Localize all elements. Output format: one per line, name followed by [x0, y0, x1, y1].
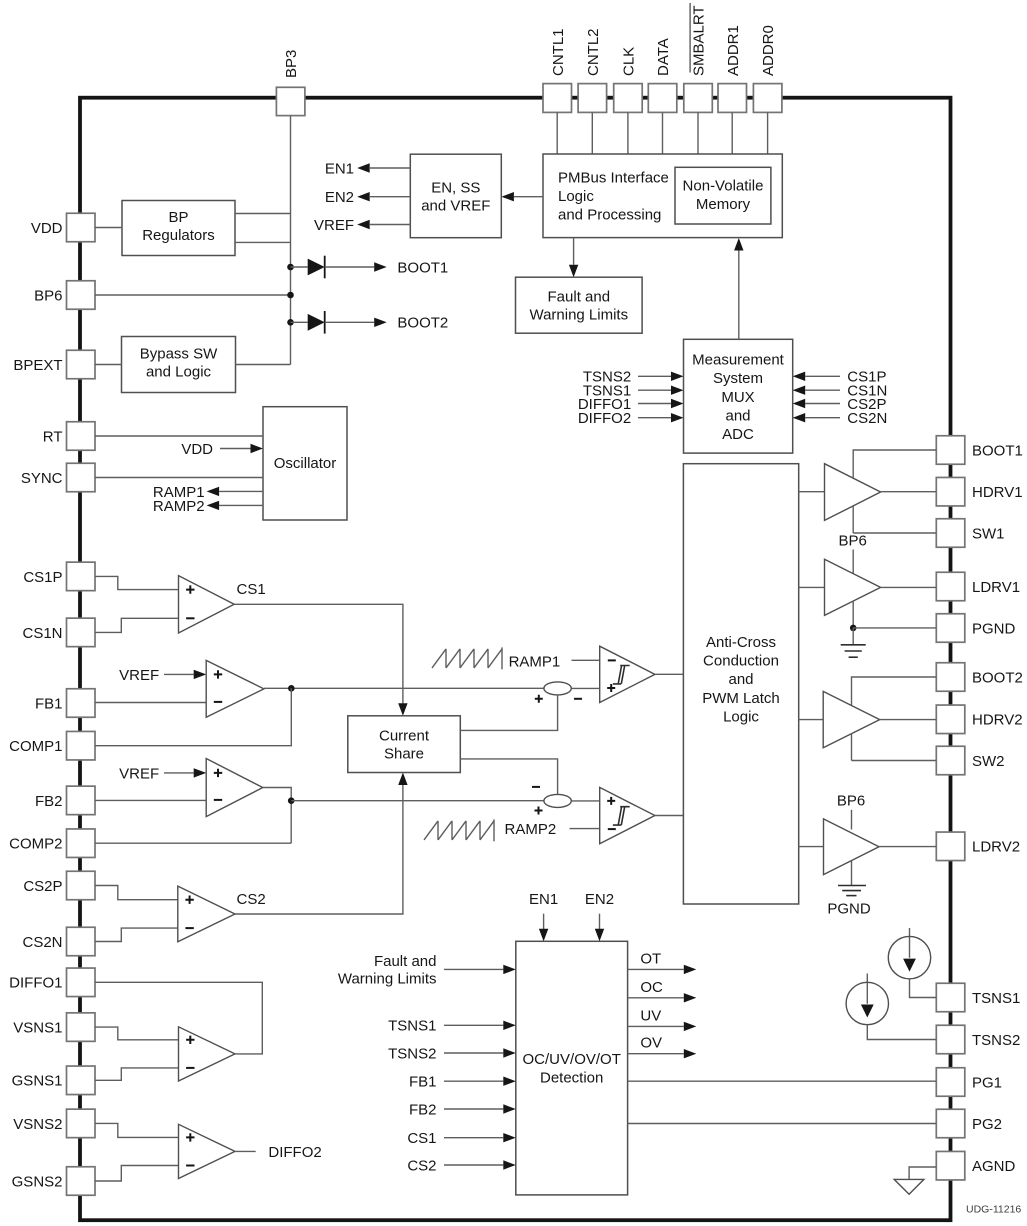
sawtooth symbol RAMP2: [424, 819, 556, 841]
svg-text:VREF: VREF: [119, 765, 159, 782]
wire BOOT1 to driver 1: [853, 450, 936, 478]
wire PGND: [853, 627, 936, 629]
svg-text:VDD: VDD: [181, 441, 213, 458]
svg-text:CNTL1: CNTL1: [550, 28, 567, 76]
ground symbol channel 1: [841, 628, 866, 657]
svg-text:PGND: PGND: [827, 900, 871, 917]
svg-text:TSNS1: TSNS1: [388, 1018, 436, 1035]
svg-text:CS2: CS2: [407, 1157, 436, 1174]
svg-text:Fault and: Fault and: [374, 953, 437, 970]
output OT from detection block: [628, 950, 697, 974]
pin BPEXT: [13, 350, 95, 379]
svg-text:Non-Volatile: Non-Volatile: [683, 178, 764, 195]
wire BP6 to driver 4: [851, 810, 853, 830]
svg-text:DATA: DATA: [655, 38, 672, 76]
ground symbol channel 2: [838, 886, 866, 896]
wire BPEXT to Bypass SW: [95, 364, 122, 366]
svg-text:EN2: EN2: [585, 891, 614, 908]
input CS1 to detection block: [407, 1130, 515, 1147]
wire diff amp 1 output to DIFFO1: [95, 982, 262, 1054]
pin SW2 (right): [936, 746, 1004, 775]
wire driver 3 to SW2 tap: [851, 734, 853, 761]
svg-text:CS2P: CS2P: [23, 878, 62, 895]
wire DATA to PMBus block: [662, 112, 664, 154]
svg-text:Conduction: Conduction: [703, 653, 779, 670]
op-amp diff amp 1: [179, 1027, 236, 1081]
svg-text:CLK: CLK: [621, 47, 638, 76]
svg-text:FB1: FB1: [35, 695, 63, 712]
op-amp error amplifier 1: [206, 660, 264, 717]
wire BP6 to driver 2: [852, 550, 854, 574]
svg-text:UDG-11216: UDG-11216: [966, 1203, 1021, 1215]
svg-text:BOOT2: BOOT2: [397, 315, 448, 332]
comparator PWM2 with hysteresis: [600, 787, 655, 843]
svg-text:Bypass SW: Bypass SW: [140, 346, 218, 363]
wire SMBALRT to PMBus block: [697, 112, 699, 154]
input EN1 arrow: [529, 891, 558, 941]
pin BP3: [276, 50, 305, 116]
chip boundary: [80, 98, 951, 1221]
pin COMP2: [9, 829, 95, 858]
wire error amp 1 output to summing node 1: [264, 687, 544, 689]
block BP Regulators: [122, 201, 235, 256]
sawtooth symbol RAMP1: [432, 647, 560, 670]
pin ADDR1: [718, 25, 747, 112]
pin BP6: [34, 281, 95, 310]
junction dot BP6: [287, 292, 294, 299]
input CS2 to detection block: [407, 1157, 515, 1174]
svg-text:and Processing: and Processing: [558, 206, 661, 223]
pin VSNS2: [13, 1109, 95, 1138]
pin PG2 (right): [936, 1109, 1002, 1138]
arrow PMBus to Fault and Warning Limits: [569, 238, 578, 277]
svg-text:RAMP2: RAMP2: [505, 821, 557, 838]
block Fault and Warning Limits: [516, 277, 643, 333]
input DIFFO1 to Measurement: [578, 396, 684, 413]
wire driver 1 to SW1 tap: [852, 506, 854, 533]
junction dot PGND channel 1: [850, 625, 857, 632]
svg-text:BP6: BP6: [839, 533, 867, 550]
svg-text:Logic: Logic: [558, 188, 594, 205]
pin COMP1: [9, 731, 95, 760]
svg-text:ADDR1: ADDR1: [725, 25, 742, 76]
wire CS2P to CS2 amp: [95, 886, 178, 900]
pin GSNS2: [12, 1167, 95, 1196]
arrow PMBus to EN SS block: [501, 192, 543, 201]
svg-text:Oscillator: Oscillator: [274, 455, 337, 472]
pin BOOT1 (right): [936, 436, 1023, 465]
svg-text:System: System: [713, 370, 763, 387]
wire RAMP2 to PWM comparator 2: [570, 828, 600, 830]
svg-text:GSNS1: GSNS1: [12, 1073, 63, 1090]
ground AGND: [894, 1167, 936, 1194]
svg-text:FB2: FB2: [409, 1101, 437, 1118]
wire Anti-Cross to driver 2: [799, 586, 825, 588]
pin CNTL2: [578, 28, 607, 112]
svg-text:RAMP1: RAMP1: [509, 653, 561, 670]
svg-text:COMP2: COMP2: [9, 836, 62, 853]
driver buffer 1 (HDRV1): [825, 464, 881, 521]
svg-text:CS1P: CS1P: [23, 569, 62, 586]
svg-text:PWM Latch: PWM Latch: [702, 690, 780, 707]
wire PWM1 to Anti-Cross block: [655, 673, 684, 675]
input CS2N to Measurement (right): [793, 410, 888, 427]
svg-text:BP6: BP6: [34, 287, 62, 304]
comparator PWM1 with hysteresis: [600, 646, 655, 702]
wire BP6 to net: [95, 294, 291, 296]
input CS2P to Measurement (right): [793, 396, 887, 413]
block PMBus Interface Logic and Processing: [543, 154, 782, 238]
block Non-Volatile Memory: [675, 167, 771, 224]
junction dot diode2: [287, 319, 294, 326]
svg-text:and VREF: and VREF: [421, 198, 490, 215]
wire CS1N to CS1 amp: [95, 618, 179, 632]
svg-text:BPEXT: BPEXT: [13, 357, 62, 374]
wire summing node 1 to Current Share: [460, 695, 557, 731]
wire driver 2 to PGND node: [852, 601, 854, 628]
arrow Measurement to PMBus: [734, 238, 743, 339]
wire CNTL1 to PMBus block: [556, 112, 558, 154]
current source TSNS1: [888, 928, 936, 998]
pin LDRV2 (right): [936, 832, 1020, 861]
svg-text:VREF: VREF: [314, 217, 354, 234]
input TSNS2 to Measurement: [583, 369, 684, 386]
label Fault and Warning Limits input: [338, 953, 437, 988]
pin HDRV1 (right): [936, 477, 1022, 506]
input TSNS1 to Measurement: [583, 383, 684, 400]
svg-text:AGND: AGND: [972, 1158, 1016, 1175]
svg-text:Memory: Memory: [696, 196, 751, 213]
svg-text:DIFFO2: DIFFO2: [578, 410, 631, 427]
pin SMBALRT: [684, 3, 713, 112]
svg-text:Anti-Cross: Anti-Cross: [706, 634, 776, 651]
pin DIFFO1: [9, 968, 95, 997]
pin LDRV1 (right): [936, 572, 1020, 601]
svg-text:and: and: [725, 407, 750, 424]
wire feedback to COMP2: [95, 842, 291, 844]
output RAMP2 from Oscillator: [153, 498, 263, 515]
output OV from detection block: [628, 1035, 697, 1059]
svg-text:CS2N: CS2N: [22, 934, 62, 951]
input CS1N to Measurement (right): [793, 383, 888, 400]
pin RT: [43, 422, 95, 451]
op-amp CS2: [178, 886, 235, 942]
svg-text:Fault and: Fault and: [548, 289, 611, 306]
pin ADDR0: [753, 25, 782, 112]
svg-text:BOOT2: BOOT2: [972, 669, 1023, 686]
wire SW2: [852, 760, 937, 762]
wire Fault input to detection block: [444, 965, 516, 974]
diode D1 (BOOT1): [291, 256, 325, 279]
svg-text:RT: RT: [43, 428, 63, 445]
svg-text:LDRV1: LDRV1: [972, 579, 1020, 596]
svg-text:VREF: VREF: [119, 667, 159, 684]
wire FB1 to error amp 1: [95, 702, 206, 704]
input VDD to Oscillator: [181, 441, 263, 458]
wire Current Share to summing node 2: [460, 759, 557, 795]
block EN SS and VREF: [410, 154, 501, 238]
input TSNS2 to detection block: [388, 1045, 516, 1062]
pin BOOT2 (right): [936, 663, 1023, 692]
svg-text:BOOT1: BOOT1: [972, 442, 1023, 459]
svg-text:VSNS1: VSNS1: [13, 1020, 62, 1037]
wire VSNS2 to diff amp 2: [95, 1123, 179, 1137]
svg-text:EN, SS: EN, SS: [431, 180, 480, 197]
wire BP3 vertical net: [290, 116, 292, 365]
svg-text:ADC: ADC: [722, 426, 754, 443]
wire VSNS1 to diff amp 1: [95, 1027, 179, 1040]
svg-text:BOOT1: BOOT1: [397, 259, 448, 276]
wire Anti-Cross to driver 4: [799, 846, 824, 848]
wire BP Regulators to BP3 net: [235, 213, 291, 215]
svg-text:MUX: MUX: [721, 389, 754, 406]
svg-text:COMP1: COMP1: [9, 738, 62, 755]
wire VDD to BP Regulators: [95, 227, 122, 229]
svg-text:Share: Share: [384, 746, 424, 763]
svg-text:HDRV1: HDRV1: [972, 484, 1023, 501]
block Oscillator: [263, 407, 347, 520]
wire CS1 output to Current Share: [234, 604, 407, 716]
op-amp CS1: [179, 576, 235, 633]
pin HDRV2 (right): [936, 705, 1022, 734]
block OC/UV/OV/OT Detection: [516, 941, 628, 1195]
input FB1 to detection block: [409, 1074, 516, 1091]
input DIFFO2 to Measurement: [578, 410, 684, 427]
wire BP Regulators output 2: [235, 241, 291, 243]
wire and arrow to BOOT1 label: [325, 259, 449, 276]
svg-text:UV: UV: [640, 1007, 661, 1024]
pin CS1P: [23, 562, 95, 591]
input CS1P to Measurement (right): [793, 369, 887, 386]
current source TSNS2: [846, 974, 936, 1040]
svg-text:and: and: [728, 671, 753, 688]
pin FB2: [35, 786, 95, 815]
input FB2 to detection block: [409, 1101, 516, 1118]
pin CLK: [614, 47, 643, 113]
block Measurement System MUX and ADC: [684, 339, 793, 453]
svg-text:BP3: BP3: [283, 50, 300, 78]
svg-text:GSNS2: GSNS2: [12, 1173, 63, 1190]
svg-text:TSNS1: TSNS1: [972, 990, 1020, 1007]
summing node 2: [532, 787, 571, 815]
svg-text:DIFFO2: DIFFO2: [268, 1144, 321, 1161]
svg-text:TSNS2: TSNS2: [388, 1045, 436, 1062]
pin TSNS1 (right): [936, 983, 1020, 1012]
svg-text:CS1: CS1: [407, 1130, 436, 1147]
pin PG1 (right): [936, 1068, 1002, 1097]
wire feedback to COMP1: [95, 688, 291, 745]
input VREF to error amp 1: [119, 667, 206, 684]
wire GSNS2 to diff amp 2: [95, 1166, 179, 1182]
wire CS1P to CS1 amp: [95, 576, 179, 589]
arrow EN1 output: [325, 160, 410, 177]
svg-text:Detection: Detection: [540, 1070, 603, 1087]
svg-text:BP: BP: [168, 209, 188, 226]
diode D2 (BOOT2): [291, 311, 325, 334]
svg-text:TSNS2: TSNS2: [972, 1032, 1020, 1049]
svg-text:VSNS2: VSNS2: [13, 1116, 62, 1133]
svg-text:OC/UV/OV/OT: OC/UV/OV/OT: [523, 1051, 621, 1068]
driver buffer 4 (LDRV2): [824, 819, 880, 875]
svg-text:and Logic: and Logic: [146, 364, 212, 381]
input EN2 arrow: [585, 891, 614, 941]
pin CS1N: [22, 618, 95, 647]
wire ADDR1 to PMBus block: [731, 112, 733, 154]
wire PWM2 to Anti-Cross block: [655, 815, 684, 817]
pin SYNC: [21, 463, 95, 492]
pin AGND (right): [936, 1151, 1015, 1180]
arrow VREF output: [314, 217, 410, 234]
svg-text:OV: OV: [640, 1035, 662, 1052]
svg-text:Warning Limits: Warning Limits: [529, 307, 628, 324]
pin VDD: [31, 213, 95, 242]
svg-text:CS2N: CS2N: [847, 410, 887, 427]
summing node 1: [535, 682, 582, 703]
svg-text:PGND: PGND: [972, 620, 1016, 637]
svg-text:RAMP2: RAMP2: [153, 498, 205, 515]
svg-text:OC: OC: [640, 979, 663, 996]
wire CLK to PMBus block: [627, 112, 629, 154]
svg-text:PMBus Interface: PMBus Interface: [558, 169, 669, 186]
wire driver 3 to HDRV2: [880, 719, 937, 721]
svg-text:SW2: SW2: [972, 753, 1005, 770]
svg-text:SMBALRT: SMBALRT: [691, 5, 708, 76]
svg-text:DIFFO1: DIFFO1: [9, 975, 62, 992]
wire FB2 to error amp 2: [95, 799, 206, 801]
svg-text:Regulators: Regulators: [142, 227, 215, 244]
svg-text:HDRV2: HDRV2: [972, 712, 1023, 729]
output RAMP1 from Oscillator: [153, 484, 263, 501]
wire to summing node 2: [291, 800, 544, 802]
wire Anti-Cross to driver 3: [799, 719, 824, 721]
pin SW1 (right): [936, 519, 1004, 548]
wire CS2 output to Current Share: [235, 773, 408, 915]
pin PGND (right): [936, 614, 1015, 643]
junction dot error amp 2 output: [288, 797, 295, 804]
wire GSNS1 to diff amp 1: [95, 1068, 179, 1080]
svg-text:PG1: PG1: [972, 1074, 1002, 1091]
op-amp error amplifier 2: [206, 759, 263, 817]
svg-text:SW1: SW1: [972, 525, 1005, 542]
block Anti-Cross Conduction and PWM Latch Logic: [683, 464, 798, 904]
wire and arrow to BOOT2 label: [325, 315, 449, 332]
pin VSNS1: [13, 1013, 95, 1042]
svg-text:Measurement: Measurement: [692, 352, 785, 369]
wire summing node 2 to comparator: [571, 800, 599, 802]
svg-text:Warning Limits: Warning Limits: [338, 970, 437, 987]
op-amp diff amp 2 (DIFFO2): [179, 1124, 236, 1178]
svg-text:BP6: BP6: [837, 793, 865, 810]
wire ADDR0 to PMBus block: [767, 112, 769, 154]
pin CS2P: [23, 871, 95, 900]
wire PG2: [628, 1123, 937, 1125]
output OC from detection block: [628, 979, 697, 1003]
svg-text:EN1: EN1: [325, 160, 354, 177]
wire BOOT2 to driver 3: [852, 677, 937, 705]
pin CNTL1: [543, 28, 572, 112]
wire RT to Oscillator: [95, 435, 263, 437]
svg-text:Logic: Logic: [723, 708, 759, 725]
wire error amp 2 output jog: [263, 788, 291, 844]
block Current Share: [348, 716, 461, 773]
wire driver 4 to ground: [851, 861, 853, 886]
pin GSNS1: [12, 1066, 95, 1095]
svg-text:CS2: CS2: [237, 891, 266, 908]
svg-text:EN1: EN1: [529, 891, 558, 908]
wire PG1: [628, 1080, 937, 1082]
input TSNS1 to detection block: [388, 1018, 516, 1035]
wire diff amp 2 output: [235, 1150, 256, 1152]
wire Anti-Cross to driver 1: [799, 491, 825, 493]
wire driver 1 to HDRV1: [881, 491, 937, 493]
wire driver 4 to LDRV2: [879, 846, 936, 848]
wire Bypass SW to BP3 net: [236, 364, 291, 366]
pin TSNS2 (right): [936, 1025, 1020, 1054]
wire SW1: [853, 532, 936, 534]
wire summing node 1 to comparator: [571, 687, 599, 689]
arrow EN2 output: [325, 189, 410, 206]
svg-text:Current: Current: [379, 728, 430, 745]
pin DATA: [648, 38, 677, 112]
wire driver 2 to LDRV1: [881, 586, 937, 588]
wire CNTL2 to PMBus block: [591, 112, 593, 154]
pin FB1: [35, 689, 95, 718]
wire SYNC to Oscillator: [95, 477, 263, 479]
svg-text:FB2: FB2: [35, 793, 63, 810]
driver buffer 2 (LDRV1): [825, 559, 881, 615]
block Bypass SW and Logic: [122, 337, 236, 393]
input VREF to error amp 2: [119, 765, 206, 782]
junction dot error amp 1 output: [288, 685, 295, 692]
output UV from detection block: [628, 1007, 697, 1031]
svg-text:VDD: VDD: [31, 220, 63, 237]
driver buffer 3 (HDRV2): [823, 691, 880, 747]
svg-text:OT: OT: [640, 950, 661, 967]
svg-text:EN2: EN2: [325, 189, 354, 206]
pin CS2N: [22, 927, 95, 956]
svg-text:CNTL2: CNTL2: [585, 28, 602, 76]
svg-text:CS1: CS1: [237, 581, 266, 598]
wire RAMP1 to PWM comparator 1: [572, 659, 600, 661]
svg-text:FB1: FB1: [409, 1074, 437, 1091]
svg-text:CS1N: CS1N: [22, 625, 62, 642]
wire CS2N to CS2 amp: [95, 928, 178, 941]
svg-text:PG2: PG2: [972, 1116, 1002, 1133]
svg-text:SYNC: SYNC: [21, 470, 63, 487]
svg-text:LDRV2: LDRV2: [972, 839, 1020, 856]
junction dot diode1: [287, 264, 294, 271]
svg-text:ADDR0: ADDR0: [760, 25, 777, 76]
